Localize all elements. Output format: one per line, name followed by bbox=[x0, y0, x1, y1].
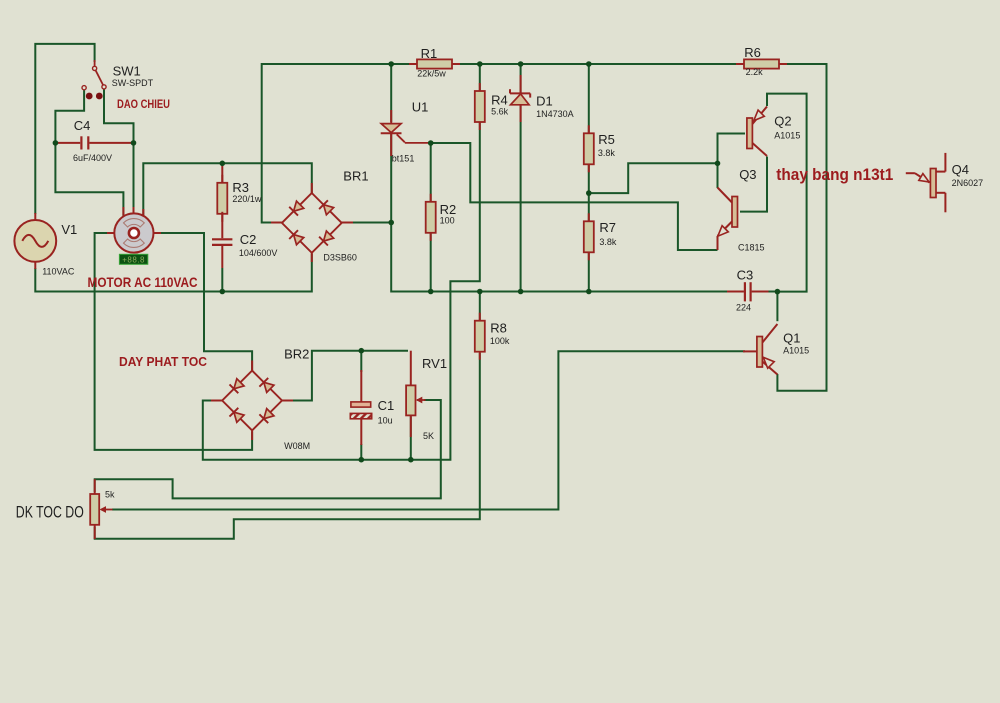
svg-text:thay bang n13t1: thay bang n13t1 bbox=[776, 165, 893, 184]
wire Q2 emitter to C3 node bbox=[767, 94, 807, 292]
svg-text:D1: D1 bbox=[536, 94, 553, 109]
svg-text:R8: R8 bbox=[490, 321, 507, 336]
svg-text:10u: 10u bbox=[378, 416, 393, 426]
pin BR2 left bbox=[211, 400, 224, 402]
wire C4 left node down to motor pin1 bbox=[55, 143, 123, 216]
svg-text:C2: C2 bbox=[240, 232, 257, 247]
svg-text:R4: R4 bbox=[491, 93, 508, 108]
svg-text:R2: R2 bbox=[440, 202, 457, 217]
node R3 top bbox=[220, 161, 226, 167]
svg-text:100k: 100k bbox=[490, 336, 510, 346]
wire R5 R7 column bbox=[588, 64, 590, 292]
wire Q1 collector stub bbox=[776, 292, 778, 322]
wire R3 C2 column bbox=[221, 268, 223, 292]
wire V1 bottom along lower bus to BR1 bottom vertex bbox=[35, 254, 312, 292]
node Q2 base Q3 collector bbox=[715, 161, 721, 167]
svg-text:R7: R7 bbox=[599, 220, 616, 235]
wire U1 anode from top bus bbox=[390, 64, 392, 122]
svg-text:Q4: Q4 bbox=[952, 162, 969, 177]
svg-text:BR1: BR1 bbox=[343, 169, 368, 184]
svg-text:U1: U1 bbox=[412, 99, 429, 114]
node R2 bottom bbox=[428, 289, 434, 295]
transistor Q1 bbox=[743, 324, 777, 375]
wire Q3 collector stub bbox=[717, 163, 719, 188]
svg-text:R6: R6 bbox=[744, 45, 761, 60]
capacitor C2 bbox=[212, 212, 232, 268]
svg-text:R3: R3 bbox=[232, 180, 249, 195]
resistor R5 bbox=[588, 125, 590, 133]
node RV1 bottom bbox=[408, 457, 414, 463]
svg-text:2N6027: 2N6027 bbox=[952, 178, 984, 188]
zener diode D1 bbox=[510, 75, 530, 122]
svg-text:6uF/400V: 6uF/400V bbox=[73, 153, 112, 163]
node C1 bottom bbox=[359, 457, 365, 463]
svg-text:R1: R1 bbox=[421, 46, 438, 61]
svg-text:R5: R5 bbox=[598, 132, 615, 147]
wire BR1 right vertex to U1 cathode column bbox=[343, 222, 392, 224]
svg-text:DK TOC DO: DK TOC DO bbox=[16, 503, 84, 522]
transistor Q2 bbox=[747, 107, 767, 157]
svg-text:DAY PHAT TOC: DAY PHAT TOC bbox=[119, 354, 208, 369]
wire D1 column bbox=[520, 64, 522, 292]
svg-text:2.2k: 2.2k bbox=[746, 67, 764, 77]
pin BR2 bottom bbox=[251, 429, 253, 440]
wire BR2 right vertex to C1 RV1 top bbox=[283, 351, 408, 401]
svg-text:V1: V1 bbox=[61, 222, 77, 237]
svg-text:DAO CHIEU: DAO CHIEU bbox=[117, 97, 170, 111]
node R5 R7 tap bbox=[586, 190, 592, 196]
svg-text:Q1: Q1 bbox=[783, 330, 800, 345]
wire R5-R7 tap to Q2 base node bbox=[589, 163, 718, 193]
capacitor C3 bbox=[727, 282, 769, 301]
wire Q1 emitter to R6 right pin bbox=[777, 64, 826, 391]
wire C4 right node down to motor pin2 bbox=[133, 143, 135, 216]
node R5 top bbox=[586, 61, 592, 67]
wire motor left pin to BR2 bottom vertex bbox=[95, 233, 253, 450]
wire RV1 wiper to DK pot top bbox=[95, 400, 441, 498]
svg-text:100: 100 bbox=[440, 216, 455, 226]
motor rpm display bbox=[119, 254, 147, 264]
bridge rectifier BR2 bbox=[222, 371, 282, 431]
svg-text:C4: C4 bbox=[74, 118, 91, 133]
PUT transistor Q4 bbox=[906, 153, 946, 212]
potentiometer RV1 bbox=[406, 351, 425, 437]
pin BR2 top bbox=[251, 361, 253, 373]
wire DK pot wiper to Q1 base bbox=[112, 351, 745, 509]
node C1 top bbox=[359, 348, 365, 354]
wire Q2 base bbox=[718, 134, 746, 164]
svg-text:3.8k: 3.8k bbox=[598, 148, 616, 158]
node D1 bottom bbox=[518, 289, 524, 295]
wire U1 gate net to Q3 emitter bbox=[428, 143, 718, 250]
wire BR1 left vertex up to top bus bbox=[262, 64, 744, 223]
node D1 top bbox=[518, 61, 524, 67]
wire Q2 collector to Q3 base bbox=[740, 157, 767, 212]
node C2 bottom bbox=[220, 289, 226, 295]
svg-text:220/1w: 220/1w bbox=[232, 194, 262, 204]
svg-text:224: 224 bbox=[736, 302, 751, 312]
pin BR2 right bbox=[281, 400, 294, 402]
wire R8 top pin bbox=[479, 292, 481, 321]
svg-text:RV1: RV1 bbox=[422, 356, 447, 371]
AC source V1 bbox=[14, 213, 56, 269]
resistor R3 bbox=[221, 175, 223, 183]
wire R4 bottom jog down to BR2 left vertex net bbox=[203, 64, 480, 460]
svg-text:110VAC: 110VAC bbox=[42, 267, 75, 277]
svg-text:A1015: A1015 bbox=[774, 131, 800, 141]
pin BR1 right bbox=[341, 222, 354, 224]
pin BR1 left bbox=[271, 222, 284, 224]
svg-text:C1815: C1815 bbox=[738, 243, 765, 253]
wire C1 column bbox=[360, 351, 362, 372]
svg-text:D3SB60: D3SB60 bbox=[323, 253, 357, 263]
wire RV1 bottom pin bbox=[410, 416, 412, 459]
node C4 right bbox=[131, 140, 137, 146]
wire C3 right to node bbox=[768, 291, 778, 293]
wire motor right pin to BR2 top vertex bbox=[154, 233, 253, 372]
svg-text:SW-SPDT: SW-SPDT bbox=[112, 78, 154, 88]
svg-text:C1: C1 bbox=[378, 398, 395, 413]
svg-text:+88.8: +88.8 bbox=[122, 255, 145, 264]
resistor R1 bbox=[409, 63, 417, 65]
node C3 right bbox=[775, 289, 781, 295]
svg-text:W08M: W08M bbox=[284, 441, 310, 451]
node R1 left - U1 anode bbox=[388, 61, 394, 67]
svg-text:A1015: A1015 bbox=[783, 346, 809, 356]
capacitor C4 bbox=[55, 136, 133, 149]
node U1 gate bbox=[428, 140, 434, 146]
node R7 bottom bbox=[586, 289, 592, 295]
svg-text:Q3: Q3 bbox=[739, 167, 756, 182]
svg-text:5.6k: 5.6k bbox=[491, 106, 509, 116]
resistor R6 bbox=[736, 63, 744, 65]
svg-text:3.8k: 3.8k bbox=[599, 237, 617, 247]
svg-text:1N4730A: 1N4730A bbox=[536, 109, 574, 119]
pin BR1 top bbox=[311, 183, 313, 195]
node BR1 right - U1 cathode bbox=[388, 220, 394, 226]
node C4 left bbox=[53, 140, 59, 146]
resistor R2 bbox=[430, 194, 432, 202]
svg-text:Q2: Q2 bbox=[774, 114, 791, 129]
potentiometer DK 5k bbox=[90, 479, 112, 539]
svg-text:bt151: bt151 bbox=[392, 154, 415, 164]
wire V1 top to SW1 pivot bbox=[35, 44, 94, 214]
capacitor C1 bbox=[350, 370, 371, 445]
transistor Q3 bbox=[718, 188, 738, 251]
svg-text:BR2: BR2 bbox=[284, 347, 309, 362]
resistor R8 bbox=[479, 313, 481, 321]
wire U1 gate node to R2 column bbox=[430, 143, 432, 292]
wire DK pot bottom to R8 bottom bbox=[95, 353, 480, 539]
resistor R7 bbox=[588, 213, 590, 221]
wire U1 cathode down and lower-right bus to C3 bbox=[391, 134, 727, 292]
pin BR1 bottom bbox=[311, 252, 313, 263]
node R8 top bbox=[477, 289, 483, 295]
SCR U1 bbox=[381, 110, 429, 156]
svg-text:MOTOR AC 110VAC: MOTOR AC 110VAC bbox=[88, 274, 198, 290]
motor AC bbox=[107, 207, 161, 253]
wire SW1 left throw to C4 left node bbox=[55, 90, 84, 143]
svg-text:5k: 5k bbox=[105, 489, 115, 499]
svg-text:104/600V: 104/600V bbox=[239, 248, 278, 258]
wire motor pin3 to R3 top and BR1 top vertex bbox=[143, 163, 311, 216]
resistor R4 bbox=[479, 83, 481, 91]
svg-text:C3: C3 bbox=[737, 268, 754, 283]
switch SW1 bbox=[82, 60, 106, 99]
svg-text:22k/5w: 22k/5w bbox=[417, 68, 446, 78]
svg-text:SW1: SW1 bbox=[113, 63, 141, 78]
node R4 top bbox=[477, 61, 483, 67]
svg-text:5K: 5K bbox=[423, 431, 434, 441]
bridge rectifier BR1 bbox=[282, 193, 342, 253]
wire SW1 right throw to C4 right node bbox=[104, 89, 134, 143]
